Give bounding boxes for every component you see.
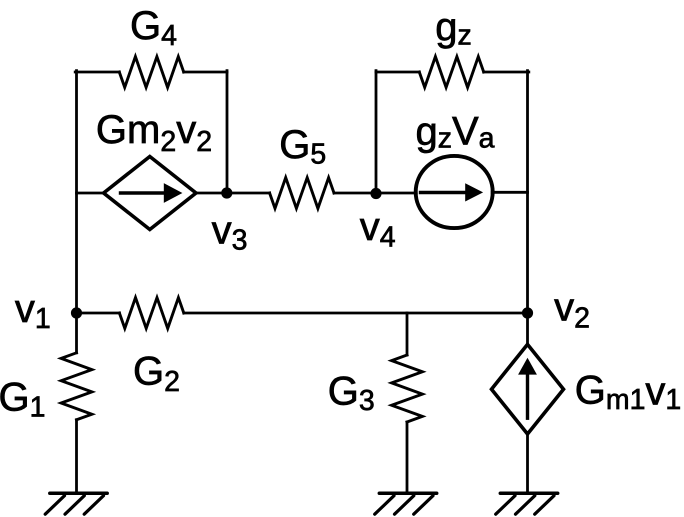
- wire: G1 to ground: [75, 420, 78, 493]
- wire: G3 branch from middle wire: [406, 313, 409, 355]
- dependent source gzVa (circle): [416, 156, 493, 228]
- wire: left rail top (G4 loop left, node v1 column): [75, 71, 78, 313]
- arrow of Gm2v2: [121, 191, 167, 194]
- arrow of gzVa: [421, 191, 468, 194]
- wire: gz loop top-left: [376, 71, 419, 74]
- wire: G4 loop top-right: [184, 71, 227, 74]
- ground (below G1): [45, 493, 107, 514]
- arrow of Gm1v1 (up): [526, 375, 529, 418]
- wire: right rail (gz loop right down through v2): [526, 71, 529, 313]
- wire: G2 to v2 (middle horizontal): [184, 312, 528, 315]
- wire: G4 loop right vertical down to v3: [226, 71, 229, 193]
- wire: stub left rail to Gm2v2 diamond: [77, 192, 105, 195]
- wire: Gm2v2 diamond to v3: [196, 192, 228, 195]
- node v4 junction dot: [370, 188, 381, 199]
- resistor gz: [419, 57, 483, 88]
- node v1 junction dot: [71, 307, 82, 318]
- wire: G5 to v4: [334, 192, 376, 195]
- wire: v2 to Gm1v1 diamond: [526, 313, 529, 344]
- resistor G4: [119, 57, 183, 88]
- wire: Gm1v1 diamond to ground: [526, 434, 529, 493]
- dependent source Gm2v2 (diamond): [104, 157, 196, 230]
- wire: v1 to G2: [77, 312, 120, 315]
- resistor G1: [61, 353, 92, 420]
- ground (below Gm1v1): [496, 493, 558, 514]
- resistor G3: [392, 355, 423, 422]
- wire: v3 to G5: [227, 192, 270, 195]
- svg-text:Gm2v2: Gm2v2: [96, 108, 212, 158]
- resistor G5: [270, 178, 334, 209]
- node v2 junction dot: [522, 307, 533, 318]
- resistor G2: [119, 298, 183, 329]
- wire: gzVa source to right rail: [492, 191, 527, 194]
- wire: G4 loop top-left: [75, 71, 119, 74]
- ground (below G3): [375, 493, 437, 514]
- node v3 junction dot: [221, 187, 232, 198]
- wire: v1 to G1: [75, 313, 78, 353]
- wire: G3 to ground: [406, 422, 409, 493]
- wire: v4 to gzVa source: [376, 192, 416, 195]
- dependent source Gm1v1 (diamond): [492, 344, 564, 434]
- wire: gz loop top-right: [484, 71, 529, 74]
- wire: v4 vertical (gz loop left): [375, 71, 378, 193]
